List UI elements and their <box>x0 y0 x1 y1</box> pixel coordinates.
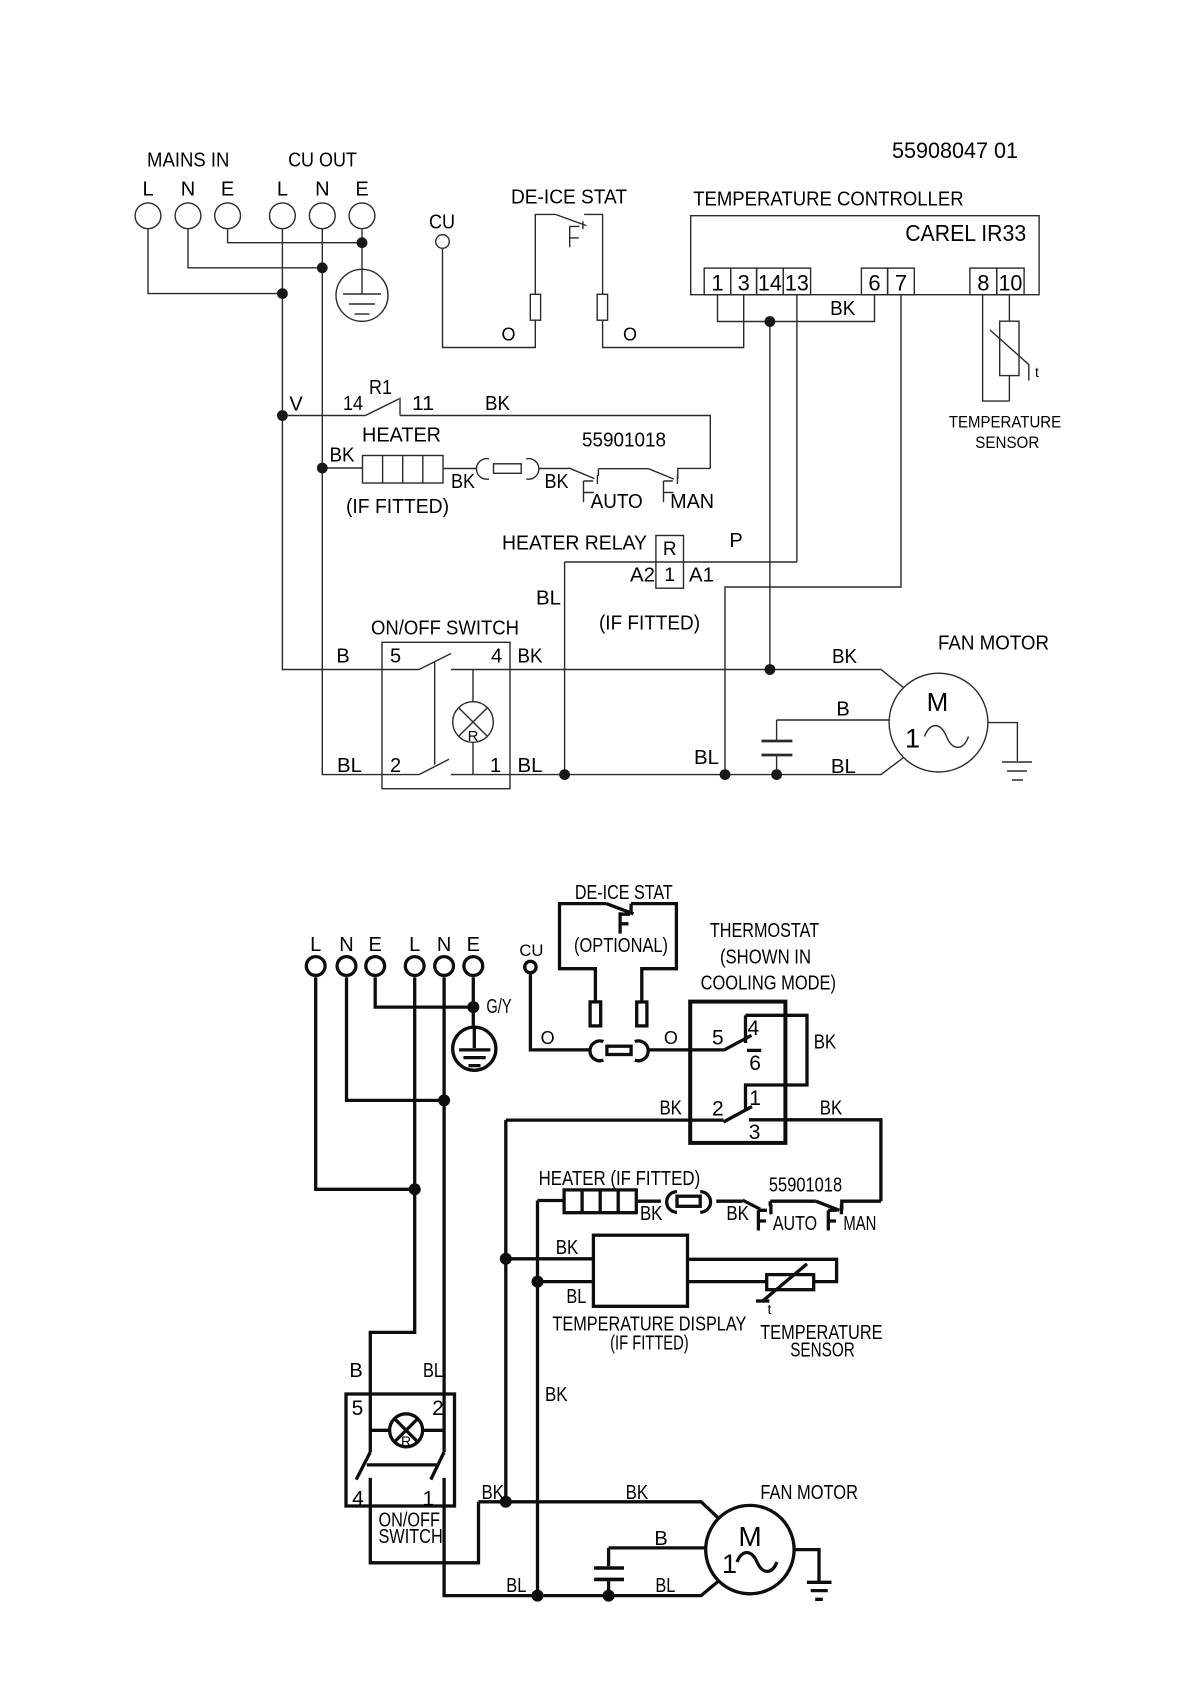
svg-text:HEATER RELAY: HEATER RELAY <box>502 533 647 555</box>
svg-text:L: L <box>142 179 153 201</box>
svg-text:2: 2 <box>432 1397 444 1420</box>
svg-text:E: E <box>467 934 480 956</box>
svg-text:L: L <box>310 934 321 956</box>
svg-text:N: N <box>181 179 195 201</box>
svg-text:BL: BL <box>337 755 362 777</box>
svg-text:BK: BK <box>518 646 544 668</box>
svg-text:M: M <box>738 1521 761 1552</box>
svg-text:1: 1 <box>422 1488 434 1511</box>
svg-text:SENSOR: SENSOR <box>790 1340 855 1362</box>
svg-text:5: 5 <box>712 1027 724 1050</box>
svg-text:HEATER (IF FITTED): HEATER (IF FITTED) <box>539 1168 701 1190</box>
svg-text:AUTO: AUTO <box>773 1213 817 1235</box>
svg-text:8: 8 <box>977 271 989 296</box>
svg-text:BL: BL <box>423 1360 443 1382</box>
svg-text:3: 3 <box>749 1121 761 1144</box>
svg-text:A2: A2 <box>630 565 655 587</box>
svg-text:1: 1 <box>905 724 920 754</box>
svg-text:MAN: MAN <box>843 1213 876 1235</box>
svg-text:A1: A1 <box>689 565 714 587</box>
svg-text:BK: BK <box>545 1384 568 1406</box>
svg-text:(IF FITTED): (IF FITTED) <box>610 1333 689 1355</box>
svg-text:TEMPERATURE CONTROLLER: TEMPERATURE CONTROLLER <box>693 189 963 211</box>
svg-text:14: 14 <box>758 271 782 296</box>
svg-text:HEATER: HEATER <box>362 425 441 447</box>
svg-text:B: B <box>654 1528 667 1550</box>
svg-text:BK: BK <box>814 1032 837 1054</box>
svg-text:1: 1 <box>711 271 723 296</box>
svg-text:O: O <box>541 1028 555 1048</box>
svg-text:BK: BK <box>659 1097 682 1119</box>
svg-text:CAREL IR33: CAREL IR33 <box>905 220 1026 246</box>
svg-text:MAN: MAN <box>670 491 714 513</box>
svg-text:B: B <box>836 699 849 721</box>
svg-text:N: N <box>437 934 451 956</box>
svg-text:BL: BL <box>536 588 561 610</box>
svg-text:55908047 01: 55908047 01 <box>892 138 1018 163</box>
svg-text:V: V <box>289 394 303 416</box>
svg-text:1: 1 <box>664 565 675 586</box>
svg-text:1: 1 <box>749 1087 761 1110</box>
svg-text:R1: R1 <box>369 377 392 399</box>
svg-text:CU: CU <box>519 941 543 960</box>
svg-text:4: 4 <box>748 1017 760 1040</box>
svg-text:(IF FITTED): (IF FITTED) <box>599 613 700 635</box>
svg-text:CU OUT: CU OUT <box>288 150 357 172</box>
svg-text:AUTO: AUTO <box>591 491 643 513</box>
svg-text:2: 2 <box>390 755 401 777</box>
svg-text:55901018: 55901018 <box>582 430 666 452</box>
svg-text:BK: BK <box>726 1203 749 1225</box>
svg-text:1: 1 <box>490 755 501 777</box>
svg-text:(IF FITTED): (IF FITTED) <box>346 496 449 518</box>
svg-text:FAN MOTOR: FAN MOTOR <box>760 1482 858 1504</box>
svg-text:DE-ICE STAT: DE-ICE STAT <box>511 187 627 209</box>
svg-text:N: N <box>339 934 353 956</box>
svg-text:BK: BK <box>485 393 511 415</box>
svg-text:TEMPERATURE: TEMPERATURE <box>949 414 1061 432</box>
svg-text:DE-ICE STAT: DE-ICE STAT <box>575 882 673 904</box>
svg-text:BL: BL <box>518 755 543 777</box>
svg-text:P: P <box>729 530 742 552</box>
svg-text:14: 14 <box>343 393 363 415</box>
svg-text:BK: BK <box>832 646 858 668</box>
svg-text:R: R <box>401 1433 411 1449</box>
svg-text:THERMOSTAT: THERMOSTAT <box>710 920 819 942</box>
svg-text:BK: BK <box>451 471 476 493</box>
svg-text:1: 1 <box>722 1549 737 1579</box>
svg-text:O: O <box>623 325 637 345</box>
svg-text:BK: BK <box>556 1237 579 1259</box>
svg-text:ON/OFF SWITCH: ON/OFF SWITCH <box>371 618 519 640</box>
svg-text:6: 6 <box>749 1052 761 1075</box>
svg-text:O: O <box>501 325 515 345</box>
svg-text:M: M <box>927 687 949 717</box>
svg-text:t: t <box>767 1301 771 1317</box>
svg-text:BL: BL <box>506 1575 526 1597</box>
svg-text:3: 3 <box>738 271 750 296</box>
svg-text:4: 4 <box>491 646 502 668</box>
svg-text:G/Y: G/Y <box>486 996 511 1018</box>
svg-text:BL: BL <box>566 1286 586 1308</box>
svg-text:BL: BL <box>831 756 856 778</box>
svg-text:6: 6 <box>868 271 880 296</box>
svg-text:FAN MOTOR: FAN MOTOR <box>938 633 1049 655</box>
svg-text:10: 10 <box>998 271 1022 296</box>
svg-text:E: E <box>369 934 382 956</box>
svg-text:L: L <box>277 179 288 201</box>
svg-text:B: B <box>336 646 349 668</box>
svg-text:O: O <box>664 1028 678 1048</box>
svg-text:7: 7 <box>895 271 907 296</box>
svg-text:(SHOWN IN: (SHOWN IN <box>720 947 811 969</box>
svg-text:COOLING MODE): COOLING MODE) <box>701 973 836 995</box>
svg-text:BK: BK <box>626 1482 649 1504</box>
svg-text:2: 2 <box>712 1098 724 1121</box>
svg-text:13: 13 <box>785 271 809 296</box>
svg-text:N: N <box>315 179 329 201</box>
svg-text:(OPTIONAL): (OPTIONAL) <box>574 935 668 957</box>
svg-text:BK: BK <box>820 1097 843 1119</box>
svg-text:5: 5 <box>390 646 401 668</box>
svg-text:SWITCH: SWITCH <box>378 1526 442 1548</box>
svg-text:E: E <box>221 179 234 201</box>
svg-text:B: B <box>349 1360 362 1382</box>
svg-text:5: 5 <box>352 1397 364 1420</box>
svg-text:E: E <box>355 179 368 201</box>
svg-text:L: L <box>409 934 420 956</box>
svg-text:CU: CU <box>429 212 455 234</box>
svg-text:R: R <box>663 539 677 560</box>
svg-text:SENSOR: SENSOR <box>975 434 1039 452</box>
svg-text:t: t <box>1035 364 1039 380</box>
svg-text:4: 4 <box>352 1488 364 1511</box>
svg-text:BK: BK <box>545 471 570 493</box>
svg-text:R: R <box>468 728 479 745</box>
svg-text:BK: BK <box>330 445 356 467</box>
svg-text:11: 11 <box>412 393 434 415</box>
svg-text:55901018: 55901018 <box>769 1175 842 1197</box>
svg-text:BK: BK <box>640 1203 663 1225</box>
svg-text:MAINS IN: MAINS IN <box>147 150 229 172</box>
svg-text:BK: BK <box>481 1482 504 1504</box>
svg-text:BL: BL <box>694 747 719 769</box>
svg-text:BK: BK <box>830 298 856 320</box>
svg-text:BL: BL <box>655 1575 675 1597</box>
